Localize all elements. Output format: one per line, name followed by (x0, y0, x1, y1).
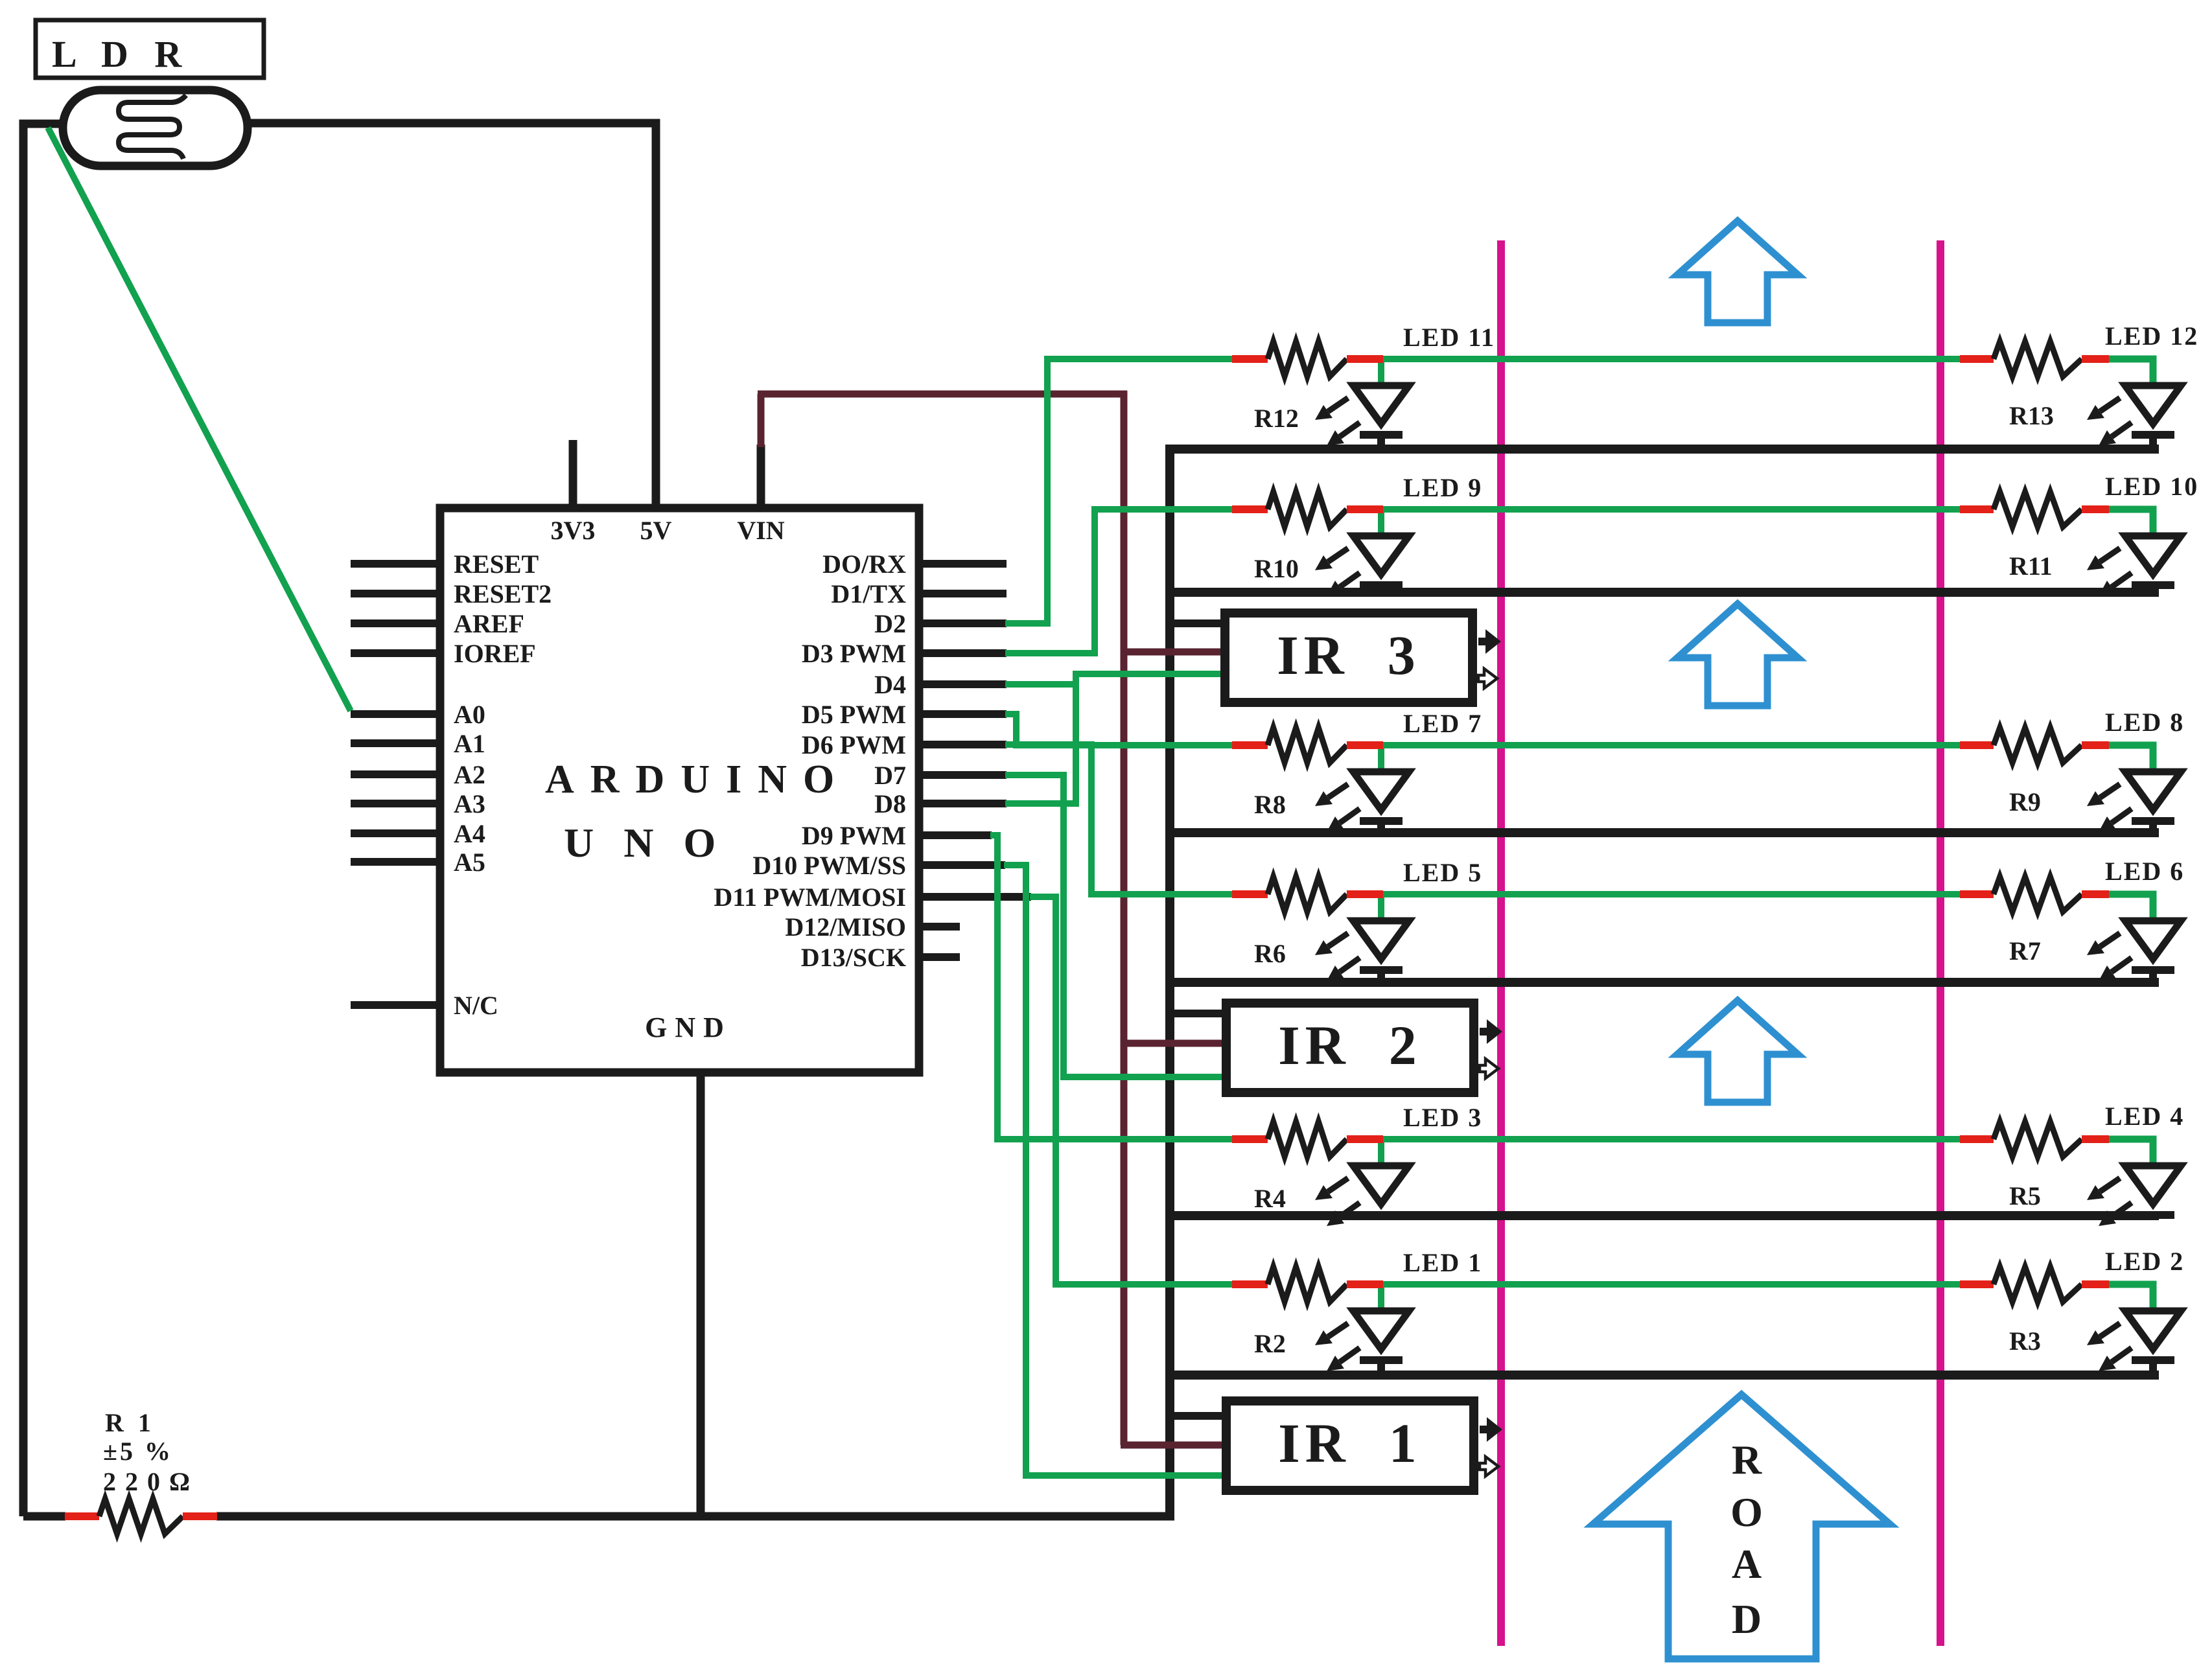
svg-text:A2: A2 (454, 760, 485, 789)
wire D9 to LED3 row (horizontal) (990, 832, 997, 839)
svg-text:N/C: N/C (454, 991, 498, 1020)
ROAD arrow (1593, 1394, 1890, 1659)
wire LDR to 5V (top) (248, 123, 656, 508)
resistor R9 (1960, 741, 1994, 749)
pin stub A0 (351, 710, 441, 718)
wire D5 to LED7 row (horizontal) (1005, 711, 1016, 717)
wire D10 to IR1 (horizontal) (1004, 862, 1026, 868)
wire VIN power rail vertical (maroon) (1121, 391, 1128, 1445)
wire IR3 signal (green) (1076, 671, 1226, 677)
wire ground rail left segment (23, 1512, 65, 1521)
svg-text:±5 %: ±5 % (103, 1437, 173, 1466)
wire LED 9 row green (left) (1095, 506, 1233, 513)
svg-text:R6: R6 (1254, 939, 1286, 968)
pin stub D10 PWM/SS (919, 861, 1005, 869)
wire LED 1-LED 2 row green (middle) (1380, 1281, 1961, 1288)
svg-text:RESET2: RESET2 (454, 579, 552, 608)
LDR body (63, 90, 248, 166)
IR sensor IR3 (1225, 613, 1473, 702)
ground bus for LED 3/LED 4 (1165, 1211, 2159, 1220)
pin stub D1/TX (919, 590, 1007, 597)
svg-text:D4: D4 (874, 670, 906, 699)
svg-text:D11 PWM/MOSI: D11 PWM/MOSI (714, 883, 906, 912)
svg-text:R3: R3 (2009, 1326, 2041, 1356)
pin stub RESET (351, 560, 441, 568)
svg-text:LED 12: LED 12 (2105, 321, 2198, 351)
wire D2 to LED11 row (vertical) (1044, 356, 1051, 627)
svg-text:LED 4: LED 4 (2105, 1102, 2184, 1131)
wire power tap to IR 1 (maroon) (1121, 1442, 1229, 1449)
wire LED 9-LED 10 row green (middle) (1380, 506, 1961, 513)
wire VIN riser (maroon) (758, 394, 765, 447)
pin stub D6 PWM (919, 741, 1007, 748)
pin stub D8 (919, 800, 1007, 807)
wire D6 to LED5 row (vertical) (1088, 741, 1095, 897)
svg-text:R4: R4 (1254, 1184, 1286, 1213)
wire ground rail main segment (216, 1512, 1174, 1521)
wire LED 5 row green (left) (1091, 891, 1233, 897)
wire LED 7 anode drop (green) (1378, 745, 1384, 776)
svg-text:LED 1: LED 1 (1403, 1248, 1482, 1277)
wire D4 to IR3 column (horizontal) (1005, 681, 1076, 688)
ground bus for LED 9/LED 10 (1165, 588, 2159, 597)
svg-text:R 1: R 1 (105, 1408, 155, 1437)
svg-text:A0: A0 (454, 700, 485, 729)
LED LED 7 (1353, 772, 1409, 810)
wire VIN stub (757, 445, 765, 508)
resistor R7 (1960, 890, 1994, 898)
LDR label box (36, 20, 264, 78)
LED LED 8 (2125, 772, 2181, 810)
svg-text:IR 1: IR 1 (1278, 1412, 1422, 1474)
svg-text:A1: A1 (454, 729, 485, 758)
wire D5 to LED7 row (vertical) (1013, 711, 1019, 748)
LED LED 4 (2125, 1166, 2181, 1204)
resistor R4 (1232, 1135, 1268, 1143)
pin stub D12/MISO (919, 923, 960, 931)
wire LDR to A0 (green diagonal) (48, 128, 351, 711)
wire D6 to LED5 row (horizontal) (1005, 741, 1091, 748)
LDR element (119, 95, 186, 159)
wire IR2 signal (green) (1064, 1074, 1229, 1080)
wire D8 to IR3 column (vertical) (1073, 671, 1079, 807)
svg-text:A4: A4 (454, 819, 485, 848)
direction arrow (lower) (1677, 1001, 1798, 1102)
svg-text:3V3: 3V3 (551, 516, 596, 545)
pin stub D5 PWM (919, 710, 1007, 718)
wire 3V3 stub (569, 440, 577, 508)
svg-text:RESET: RESET (454, 550, 539, 579)
wire D8 to IR3 column (horizontal) (1005, 800, 1076, 807)
pin stub D9 PWM (919, 831, 992, 839)
ground bus for LED 7/LED 8 (1165, 828, 2159, 837)
svg-text:ARDUINO: ARDUINO (545, 758, 850, 802)
svg-text:R2: R2 (1254, 1329, 1286, 1358)
LED LED 12 (2125, 386, 2181, 424)
wire LED 9 anode drop (green) (1378, 509, 1384, 540)
wire D11 to LED1 row (horizontal) (1030, 894, 1056, 900)
wire IR 2 ground (1170, 1010, 1229, 1017)
pin stub N/C (351, 1001, 441, 1009)
svg-text:IOREF: IOREF (454, 639, 536, 668)
svg-text:R11: R11 (2009, 551, 2053, 581)
wire LED 1 row green (left) (1056, 1281, 1233, 1288)
svg-text:D6 PWM: D6 PWM (802, 730, 906, 759)
resistor R6 (1232, 890, 1268, 898)
direction arrow (middle) (1677, 604, 1798, 706)
svg-text:D10 PWM/SS: D10 PWM/SS (752, 851, 906, 880)
pin stub IOREF (351, 649, 441, 657)
svg-text:R13: R13 (2009, 401, 2054, 430)
svg-text:O: O (1730, 1489, 1763, 1535)
LED LED 1 (1353, 1311, 1409, 1349)
svg-text:IR 2: IR 2 (1278, 1014, 1422, 1076)
svg-text:LED 8: LED 8 (2105, 708, 2184, 737)
wire GND pin to ground rail (697, 1072, 705, 1520)
svg-text:D2: D2 (874, 609, 906, 638)
wire D4 to IR3 column (vertical) (1073, 671, 1079, 688)
pin stub AREF (351, 619, 441, 627)
Arduino UNO body (440, 508, 919, 1072)
svg-text:R7: R7 (2009, 936, 2041, 966)
ground bus for LED 11/LED 12 (1165, 445, 2159, 454)
svg-text:LED 10: LED 10 (2105, 472, 2198, 501)
wire LED 7-LED 8 row green (middle) (1380, 742, 1961, 748)
wire LED 3-LED 4 row green (middle) (1380, 1136, 1961, 1142)
pin stub D7 (919, 771, 1007, 779)
svg-text:D8: D8 (874, 789, 906, 818)
wire LED 6 green elbow (2106, 894, 2153, 925)
pin stub RESET2 (351, 590, 441, 597)
svg-text:L D R: L D R (52, 33, 190, 75)
svg-text:R5: R5 (2009, 1181, 2041, 1210)
wire D3 to LED9 row (vertical) (1091, 506, 1098, 656)
ground bus for LED 5/LED 6 (1165, 978, 2159, 987)
pin stub A4 (351, 829, 441, 837)
svg-text:D: D (1732, 1596, 1762, 1642)
resistor R10 (1232, 505, 1268, 513)
pin stub A5 (351, 858, 441, 866)
wire D3 to LED9 row (horizontal) (1005, 650, 1095, 656)
svg-text:D7: D7 (874, 761, 906, 790)
pin stub D11 PWM/MOSI (919, 893, 1031, 901)
svg-text:R9: R9 (2009, 787, 2041, 816)
IR sensor IR2 (1226, 1003, 1474, 1093)
resistor R2 (1232, 1280, 1268, 1288)
wire LED 12 green elbow (2106, 359, 2153, 389)
wire D10 to IR1 (vertical) (1023, 862, 1029, 1479)
resistor R13 (1960, 355, 1994, 363)
ground bus for LED 1/LED 2 (1165, 1371, 2159, 1380)
pin stub A2 (351, 770, 441, 778)
wire LDR left to ground rail (23, 124, 63, 1516)
resistor R3 (1960, 1280, 1994, 1288)
wire LED 8 green elbow (2106, 745, 2153, 776)
wire IR 1 ground (1170, 1412, 1229, 1420)
wire LED 1 anode drop (green) (1378, 1284, 1384, 1315)
svg-text:LED 6: LED 6 (2105, 857, 2184, 886)
svg-text:LED 7: LED 7 (1403, 709, 1482, 738)
wire VIN power rail horizontal (maroon) (758, 391, 1127, 398)
wire D7 to IR2 (horizontal) (1005, 772, 1064, 778)
LED LED 3 (1353, 1166, 1409, 1204)
wire LED 4 green elbow (2106, 1139, 2153, 1170)
wire LED 10 green elbow (2106, 509, 2153, 540)
svg-text:A3: A3 (454, 789, 485, 818)
wire D9 to LED3 row (vertical) (994, 832, 1001, 1142)
wire IR1 signal (green) (1026, 1472, 1229, 1479)
svg-text:R8: R8 (1254, 790, 1286, 819)
wire LED 11 anode drop (green) (1378, 359, 1384, 389)
svg-text:LED 5: LED 5 (1403, 858, 1482, 887)
IR sensor IR1 (1226, 1401, 1474, 1490)
LED LED 2 (2125, 1311, 2181, 1349)
svg-text:D3 PWM: D3 PWM (802, 639, 906, 668)
wire LED 11-LED 12 row green (middle) (1380, 356, 1961, 362)
svg-text:UNO: UNO (564, 820, 745, 866)
pin stub D3 PWM (919, 649, 1007, 657)
svg-text:A: A (1732, 1541, 1762, 1587)
pin stub D13/SCK (919, 953, 960, 961)
wire LED 5-LED 6 row green (middle) (1380, 891, 1961, 897)
svg-text:IR 3: IR 3 (1277, 624, 1421, 686)
wire D2 to LED11 row (horizontal) (1005, 620, 1047, 627)
svg-text:VIN: VIN (737, 516, 784, 545)
pin stub A1 (351, 739, 441, 747)
road edge line (right magenta) (1937, 240, 1944, 1646)
resistor R11 (1960, 505, 1994, 513)
LED LED 10 (2125, 536, 2181, 574)
svg-text:R10: R10 (1254, 554, 1299, 583)
wire LED 11 row green (left) (1047, 356, 1233, 362)
resistor R5 (1960, 1135, 1994, 1143)
svg-text:D9 PWM: D9 PWM (802, 821, 906, 850)
pin stub DO/RX (919, 560, 1007, 568)
svg-text:2 2 0 Ω: 2 2 0 Ω (103, 1467, 191, 1496)
wire LED 3 row green (left) (997, 1136, 1233, 1142)
svg-text:A5: A5 (454, 848, 485, 877)
wire D7 to IR2 (vertical) (1060, 772, 1067, 1080)
pin stub D4 (919, 680, 1007, 688)
wire power tap to IR 2 (maroon) (1124, 1040, 1229, 1047)
svg-text:DO/RX: DO/RX (822, 550, 906, 579)
ground bus vertical (1165, 445, 1174, 1516)
svg-text:D12/MISO: D12/MISO (785, 912, 906, 942)
svg-text:D5 PWM: D5 PWM (802, 700, 906, 729)
wire power tap to IR 3 (maroon) (1124, 649, 1228, 656)
resistor R1 (65, 1512, 99, 1520)
resistor R8 (1232, 741, 1268, 749)
pin stub D2 (919, 619, 1007, 627)
LED LED 11 (1353, 386, 1409, 424)
svg-text:AREF: AREF (454, 609, 524, 638)
svg-text:D1/TX: D1/TX (831, 579, 906, 608)
LED LED 9 (1353, 536, 1409, 574)
svg-text:R: R (1732, 1437, 1762, 1483)
svg-text:LED 2: LED 2 (2105, 1247, 2184, 1276)
LED LED 5 (1353, 921, 1409, 959)
wire IR 3 ground (1170, 619, 1228, 627)
wire D11 to LED1 row (vertical) (1053, 894, 1059, 1288)
LED LED 6 (2125, 921, 2181, 959)
svg-text:D13/SCK: D13/SCK (801, 943, 906, 972)
wire LED 7 row green (left) (1016, 742, 1233, 748)
svg-text:R12: R12 (1254, 404, 1299, 433)
svg-text:LED 3: LED 3 (1403, 1103, 1482, 1132)
road edge line (left magenta) (1497, 240, 1505, 1646)
resistor R12 (1232, 355, 1268, 363)
wire LED 3 anode drop (green) (1378, 1139, 1384, 1170)
svg-text:GND: GND (645, 1012, 732, 1043)
svg-text:5V: 5V (640, 516, 672, 545)
svg-text:LED 9: LED 9 (1403, 473, 1482, 502)
pin stub A3 (351, 800, 441, 807)
wire LED 5 anode drop (green) (1378, 894, 1384, 925)
svg-text:LED 11: LED 11 (1403, 323, 1495, 352)
direction arrow (top) (1677, 221, 1798, 323)
wire LED 2 green elbow (2106, 1284, 2153, 1315)
